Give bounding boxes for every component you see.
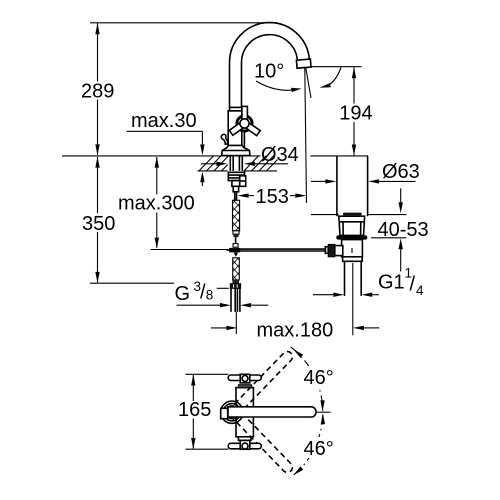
dimension max.180 bbox=[211, 320, 379, 342]
faucet spout inner arc bbox=[242, 35, 298, 108]
faucet spout outer arc bbox=[230, 23, 310, 108]
drain plug bbox=[343, 213, 362, 216]
dimension 153 bbox=[238, 186, 307, 208]
spout bearing rings bbox=[221, 401, 243, 423]
drain body bbox=[342, 240, 363, 257]
cross handle top (plan) bbox=[228, 374, 261, 383]
pop-up rod knob bbox=[221, 134, 228, 144]
dimension 350 bbox=[82, 157, 174, 284]
svg-text:/: / bbox=[410, 274, 416, 296]
svg-text:350: 350 bbox=[82, 213, 115, 235]
G3/8 coupling nut bbox=[230, 284, 241, 289]
svg-text:8: 8 bbox=[206, 288, 214, 303]
pop-up rod upper bbox=[235, 192, 237, 201]
svg-text:46°: 46° bbox=[304, 367, 334, 389]
valve body (plan) bbox=[236, 388, 253, 437]
spout (plan) bbox=[228, 407, 316, 417]
dimension G1 1/4 arrows bbox=[313, 293, 379, 297]
supply pipe centerline bbox=[235, 312, 237, 334]
svg-text:165: 165 bbox=[178, 399, 211, 421]
lower hose end bbox=[232, 280, 239, 284]
tee fitting bbox=[233, 244, 238, 248]
svg-text:194: 194 bbox=[339, 102, 372, 124]
drain tailpipe bbox=[344, 261, 346, 296]
svg-text:10°: 10° bbox=[254, 61, 284, 83]
svg-text:153: 153 bbox=[256, 186, 289, 208]
counter top line bbox=[62, 155, 261, 157]
label G1 1/4 bbox=[378, 266, 424, 299]
drain gasket bbox=[336, 235, 367, 239]
label Ø63 with leaders bbox=[311, 161, 420, 184]
drain rod socket bbox=[325, 247, 328, 254]
pop-up knob tab (plan) bbox=[221, 408, 228, 418]
hose connector bbox=[233, 231, 239, 237]
dimension G3/8 arrows bbox=[177, 303, 269, 307]
label Ø34 with leaders bbox=[201, 144, 299, 166]
outlet 10deg tilted axis line bbox=[305, 65, 311, 98]
outlet projection line bbox=[305, 68, 307, 203]
drain flange bbox=[339, 216, 365, 235]
faucet aerator nozzle bbox=[296, 59, 311, 68]
dimension 194 bbox=[310, 67, 372, 156]
extension line 350 bottom bbox=[90, 282, 174, 284]
arc arrowhead mid upper bbox=[320, 400, 324, 411]
spout centerline stub bbox=[317, 411, 331, 413]
10deg leader arc left bbox=[256, 81, 297, 90]
white gap for 46 bottom bbox=[301, 437, 336, 458]
arc arrowhead mid lower bbox=[321, 413, 325, 424]
white gap for 46 top bbox=[301, 366, 336, 387]
drain centerline bbox=[352, 263, 354, 335]
dimension 165 bbox=[178, 375, 211, 450]
svg-text:max.30: max.30 bbox=[131, 110, 197, 132]
cross handle bottom (plan) bbox=[228, 440, 261, 449]
extension line plan top bbox=[185, 373, 228, 375]
dimension max.300 bbox=[118, 157, 195, 249]
faucet body bbox=[228, 107, 242, 145]
handle neck bottom bbox=[238, 437, 251, 441]
braided hose lower bbox=[233, 258, 240, 280]
svg-text:289: 289 bbox=[81, 81, 114, 103]
dimension 289 bbox=[81, 23, 114, 155]
extension line top of spout bbox=[90, 22, 278, 24]
svg-text:max.180: max.180 bbox=[257, 320, 334, 342]
braided hose upper bbox=[233, 200, 240, 231]
svg-text:max.300: max.300 bbox=[118, 193, 195, 215]
extension line plan bottom bbox=[185, 448, 228, 450]
mounting washer and nut bbox=[228, 172, 245, 192]
basin surface line left of flange bbox=[311, 214, 339, 216]
swivel range upper (dashed) bbox=[230, 352, 292, 416]
svg-text:Ø63: Ø63 bbox=[382, 161, 420, 183]
10deg leader arc right bbox=[324, 68, 341, 88]
counter bottom line left part bbox=[198, 170, 228, 172]
dimension 40-53 bbox=[368, 188, 429, 271]
svg-text:46°: 46° bbox=[304, 438, 334, 460]
counter bottom line right part bbox=[244, 170, 277, 172]
svg-text:G1: G1 bbox=[378, 272, 405, 294]
horizontal actuating rod bbox=[151, 248, 332, 257]
svg-text:4: 4 bbox=[416, 283, 424, 298]
faucet base escutcheon bbox=[222, 146, 250, 156]
rod segment bbox=[235, 237, 237, 243]
drain bottom step bbox=[343, 257, 363, 262]
svg-text:G: G bbox=[175, 283, 191, 305]
dimension max.30 bbox=[127, 110, 205, 186]
handle stem line bbox=[243, 131, 245, 148]
swivel range lower (dashed) bbox=[230, 409, 292, 473]
arc arrowhead bottom bbox=[293, 466, 303, 475]
counter hatching right bbox=[244, 156, 278, 171]
swivel angle arc (dash-dot) bbox=[291, 347, 323, 478]
supply pipe bbox=[231, 288, 240, 312]
label G 3/8 bbox=[175, 279, 229, 305]
faucet cross handle bbox=[229, 106, 260, 135]
handle neck top bbox=[238, 385, 251, 388]
threaded shank bbox=[230, 156, 242, 171]
arc arrowhead top bbox=[293, 349, 303, 358]
svg-text:Ø34: Ø34 bbox=[261, 144, 299, 166]
drain pipe walls bbox=[336, 156, 338, 216]
counter hatching left bbox=[199, 156, 229, 171]
